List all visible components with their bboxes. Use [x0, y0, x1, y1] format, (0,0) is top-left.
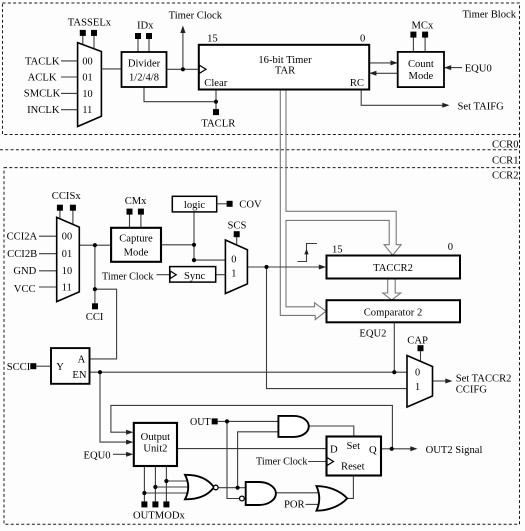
svg-text:11: 11	[82, 105, 92, 116]
svg-text:D: D	[330, 445, 338, 456]
wire Clear to TACLR square	[215, 90, 217, 110]
wire square stem MCx a	[412, 37, 414, 52]
dashed line CCR0 bottom	[0, 149, 520, 151]
svg-text:Timer Clock: Timer Clock	[169, 11, 223, 22]
wire OUTMOD1 to NOR	[144, 492, 193, 494]
wire TACLK input	[36, 27, 462, 504]
svg-text:COV: COV	[239, 200, 262, 211]
junction dot OUTMOD a	[142, 491, 146, 495]
wire OUTMODx line 3	[165, 466, 167, 501]
svg-text:Capture: Capture	[119, 234, 153, 245]
wire ACLK input	[61, 76, 78, 78]
svg-text:15: 15	[332, 244, 343, 255]
junction dot SCS out	[264, 265, 268, 269]
wire square stem TASSEL b	[93, 35, 95, 49]
terminal square TASSEL a	[80, 30, 86, 36]
svg-text:CCISx: CCISx	[52, 191, 82, 202]
wire CAP mux out	[433, 380, 448, 382]
svg-text:1/2/4/8: 1/2/4/8	[129, 73, 159, 84]
svg-text:Unit2: Unit2	[143, 444, 167, 455]
wire TAR to Count Mode	[369, 62, 398, 64]
dashed vertical right CCR0/CCR1	[519, 135, 521, 168]
svg-text:0: 0	[415, 367, 420, 378]
wire POR input	[306, 503, 321, 505]
svg-text:CCR1: CCR1	[492, 155, 519, 166]
terminal square COV	[227, 201, 233, 207]
svg-text:CCR0: CCR0	[492, 139, 519, 150]
svg-text:TASSELx: TASSELx	[68, 18, 112, 29]
svg-text:Mode: Mode	[124, 248, 149, 259]
wire Capture Mode out	[161, 244, 194, 246]
svg-text:0: 0	[231, 254, 236, 265]
junction dot OUT	[225, 419, 229, 423]
terminal square CCISx a	[57, 205, 63, 211]
wire mux TASSELx out to Divider	[101, 68, 121, 70]
bus TAR to TACCR2 and Comparator 2 (hollow double-line with arrows)	[280, 90, 401, 320]
wire NOR node up to AND lower input	[238, 432, 279, 488]
wire Timer Clock to Sync	[157, 274, 170, 276]
svg-text:CMx: CMx	[125, 196, 147, 207]
svg-text:10: 10	[62, 266, 72, 277]
terminal square IDx a	[135, 33, 141, 39]
terminal square TACLR	[213, 109, 219, 115]
svg-text:Timer Clock: Timer Clock	[102, 272, 154, 283]
wire Q out to OUT2 Signal	[381, 448, 413, 450]
svg-text:TACLK: TACLK	[25, 57, 60, 68]
svg-text:VCC: VCC	[14, 284, 36, 295]
svg-text:RC: RC	[350, 78, 364, 89]
wire square stem CAP	[420, 351, 422, 362]
terminal square MCx b	[422, 32, 428, 38]
svg-text:CCI: CCI	[86, 312, 104, 323]
svg-text:CCI2A: CCI2A	[7, 231, 38, 242]
svg-text:SMCLK: SMCLK	[24, 89, 61, 100]
svg-text:11: 11	[62, 282, 72, 293]
terminal square IDx b	[146, 33, 152, 39]
wire CCI2B input	[39, 253, 57, 255]
junction dot EQU2 CAP	[392, 370, 396, 374]
arrowhead into TAR from Count Mode	[369, 71, 376, 76]
terminal square TASSEL b	[91, 30, 97, 36]
terminal square CMx a	[127, 209, 133, 215]
AND gate top	[278, 416, 308, 437]
wire OUTMOD2 to NOR	[155, 486, 190, 488]
box Comparator 2	[327, 300, 461, 322]
svg-text:1: 1	[231, 268, 236, 279]
svg-text:SCS: SCS	[228, 221, 247, 232]
svg-text:TACCR2: TACCR2	[373, 263, 413, 274]
box Output Unit2	[134, 423, 177, 466]
arrowhead into Count Mode	[391, 60, 398, 65]
svg-text:Comparator 2: Comparator 2	[364, 307, 423, 318]
wire VCC input	[39, 286, 57, 288]
svg-text:ACLK: ACLK	[28, 73, 57, 84]
svg-text:Set: Set	[347, 441, 361, 452]
wire square stem IDx b	[148, 38, 150, 52]
svg-text:EQU0: EQU0	[465, 64, 492, 75]
wire OR out to Reset	[347, 476, 353, 499]
terminal square SCCI	[30, 363, 36, 369]
wire Divider out to TAR	[167, 68, 200, 70]
wire OUT2 feedback loop	[111, 405, 393, 448]
svg-text:SCCI: SCCI	[7, 362, 31, 373]
svg-text:Clear: Clear	[204, 78, 227, 89]
svg-text:Set TACCR2: Set TACCR2	[456, 374, 512, 385]
clock triangle Sync	[170, 271, 176, 279]
wire EQU0 into Output Unit2	[113, 453, 127, 455]
wire square stem CCISx a	[59, 210, 61, 219]
svg-text:Reset: Reset	[341, 461, 365, 472]
box logic	[172, 196, 216, 212]
arrow TACCR2 to Comparator 2 (hollow)	[383, 280, 401, 301]
terminal square CCISx b	[70, 205, 76, 211]
svg-text:Q: Q	[369, 445, 377, 456]
wire square stem SCS	[236, 237, 238, 246]
svg-text:Sync: Sync	[184, 271, 205, 282]
mux TASSELx	[78, 43, 102, 127]
wire square stem CMx a	[129, 214, 131, 228]
wire Divider bottom to TACLR node	[144, 87, 216, 102]
junction dot NOR out	[236, 486, 240, 490]
svg-text:TAR: TAR	[275, 66, 296, 77]
arrowhead Set TACCR2 CCIFG	[445, 379, 452, 384]
wire Timer Clock up arrow	[182, 27, 184, 69]
wire OUTMODx line 2	[154, 466, 156, 501]
svg-text:CCI2B: CCI2B	[7, 249, 37, 260]
svg-text:00: 00	[62, 232, 72, 243]
junction dot Q out	[390, 447, 394, 451]
wire OUTMODx line 1	[143, 466, 145, 501]
junction dot CCIS out	[93, 243, 97, 247]
wire mux CCISx out to Capture Mode	[79, 244, 111, 246]
terminal square OUTMOD b	[152, 501, 158, 507]
wire square stem TASSEL a	[82, 35, 84, 45]
wire Output Unit2 out to D input	[177, 448, 327, 450]
NOR gate	[185, 475, 218, 500]
wire OUTMOD3 to NOR	[166, 480, 193, 482]
wire square stem CCISx b	[72, 210, 74, 225]
arrowhead Timer Clock up	[180, 26, 185, 34]
wire Count Mode to TAR	[369, 72, 398, 74]
arrowhead EN into Output Unit2	[126, 440, 133, 445]
arrowhead into TACCR2	[319, 265, 326, 270]
terminal square CAP	[418, 345, 424, 351]
svg-text:logic: logic	[184, 200, 205, 211]
box TACCR2	[327, 256, 461, 279]
svg-text:1: 1	[415, 382, 420, 393]
dashed frame CCR2	[4, 168, 520, 525]
svg-text:Set TAIFG: Set TAIFG	[458, 102, 505, 113]
arrowhead OUT2 Signal	[410, 446, 417, 451]
wire SCS mux out to TACCR2	[247, 266, 320, 268]
wire SCS out down to CAP mux input 1	[267, 267, 408, 389]
junction dot capture out	[192, 243, 196, 247]
svg-text:10: 10	[82, 89, 92, 100]
wire OUT down to NAND bubble	[227, 421, 239, 498]
OR gate POR	[317, 486, 348, 511]
svg-text:GND: GND	[13, 266, 36, 277]
wire NAND out to OR gate	[276, 492, 320, 494]
junction dot EN out	[98, 370, 102, 374]
svg-text:01: 01	[82, 72, 92, 83]
svg-text:00: 00	[82, 56, 92, 67]
svg-text:Count: Count	[408, 59, 434, 70]
wire square stem MCx b	[424, 37, 426, 52]
box Capture Mode	[111, 228, 161, 262]
junction dot OUTMOD b	[153, 485, 157, 489]
box Divider	[122, 52, 167, 87]
svg-text:15: 15	[207, 33, 218, 44]
wire CCI branch down	[94, 245, 96, 303]
NAND gate with input bubble	[240, 482, 276, 505]
junction dot divider out	[181, 67, 185, 71]
svg-text:Mode: Mode	[409, 71, 434, 82]
wire SMCLK input	[61, 92, 78, 94]
svg-text:POR: POR	[284, 500, 306, 511]
clock triangle TAR	[199, 65, 206, 73]
junction dot OUTMOD c	[164, 479, 168, 483]
wire Sync out to SCS mux input 1	[216, 274, 226, 276]
svg-text:OUT: OUT	[190, 417, 211, 428]
wire EN out to CAP mux input 0	[90, 371, 408, 373]
svg-text:EN: EN	[72, 370, 86, 381]
svg-text:16-bit Timer: 16-bit Timer	[258, 55, 312, 66]
junction dot TACLR	[214, 100, 218, 104]
step capture icon	[298, 244, 318, 262]
terminal square SCS	[234, 231, 240, 237]
wire node down to SCS mux input 0	[194, 245, 225, 260]
svg-text:OUTMODx: OUTMODx	[133, 511, 185, 522]
svg-text:CCR2: CCR2	[492, 171, 519, 182]
wire GND input	[39, 270, 57, 272]
terminal square CMx b	[138, 209, 144, 215]
wire EN down to Output Unit2	[100, 372, 127, 442]
terminal square CCI	[92, 303, 98, 309]
junction dot CCI node	[93, 287, 97, 291]
clock triangle flip-flop	[327, 458, 334, 466]
svg-text:Timer Clock: Timer Clock	[256, 457, 308, 468]
terminal square OUTMOD c	[163, 501, 169, 507]
wire EQU0 to Count Mode	[444, 67, 462, 69]
wire NOR out up to AND input	[218, 487, 246, 489]
svg-text:IDx: IDx	[137, 20, 154, 31]
svg-text:Divider: Divider	[128, 59, 161, 70]
svg-text:EQU0: EQU0	[84, 451, 111, 462]
mux SCS	[225, 240, 247, 294]
terminal square OUT	[212, 418, 218, 424]
wire AND out to Set	[309, 426, 354, 437]
wire square stem IDx a	[137, 38, 139, 52]
wire node to logic	[193, 212, 195, 245]
wire RC to Set TAIFG	[361, 90, 448, 106]
wire EQU2 from Comparator 2	[393, 322, 395, 372]
wire CCI node to A input	[90, 289, 117, 359]
arrowhead EQU0 into Output Unit2	[126, 452, 133, 457]
svg-text:OUT2 Signal: OUT2 Signal	[426, 445, 483, 456]
terminal square OUTMOD a	[141, 501, 147, 507]
svg-text:CCIFG: CCIFG	[456, 384, 488, 395]
arrowhead Set TAIFG	[442, 103, 449, 108]
wire SCCI input	[36, 365, 51, 367]
junction dot SCS in	[192, 258, 196, 262]
mux CAP	[407, 356, 433, 408]
box Y A EN latch	[51, 348, 90, 384]
svg-text:A: A	[78, 354, 86, 365]
svg-text:TACLR: TACLR	[201, 119, 236, 130]
wire CCI2A input	[39, 235, 57, 237]
arrowhead OUT into Output Unit2	[126, 430, 133, 435]
wire Timer Clock to flip-flop	[308, 461, 327, 463]
svg-text:Output: Output	[141, 432, 170, 443]
svg-text:MCx: MCx	[412, 20, 434, 31]
svg-text:INCLK: INCLK	[27, 105, 60, 116]
box Count Mode	[398, 52, 444, 87]
box 16-bit Timer TAR	[199, 45, 369, 90]
flip-flop D Set Q Reset	[327, 437, 382, 476]
mux CCISx	[57, 217, 80, 301]
wire OUT square to AND gate	[218, 420, 279, 422]
wire INCLK input	[61, 109, 78, 111]
svg-text:Y: Y	[56, 362, 64, 373]
svg-text:CAP: CAP	[407, 336, 428, 347]
box Sync	[170, 267, 216, 283]
svg-text:0: 0	[448, 242, 453, 253]
svg-text:0: 0	[360, 33, 365, 44]
svg-text:01: 01	[62, 249, 72, 260]
arrowhead EQU0 into Count Mode	[444, 65, 451, 70]
wire square stem CMx b	[140, 214, 142, 228]
svg-text:Timer Block: Timer Block	[463, 9, 517, 20]
terminal square MCx a	[410, 32, 416, 38]
svg-text:EQU2: EQU2	[359, 329, 386, 340]
dashed frame Timer Block	[3, 3, 520, 135]
wire logic to COV	[217, 203, 227, 205]
